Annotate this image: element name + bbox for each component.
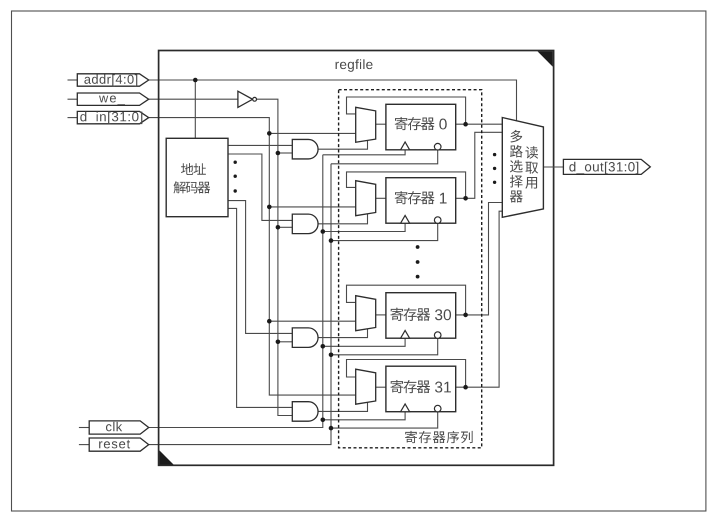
wire reg31 reset (331, 412, 438, 428)
wire feedback reg0 (347, 97, 466, 124)
node d_out[31:0] output flag (563, 159, 650, 174)
node reset input flag (79, 438, 149, 451)
register 0 box (386, 104, 456, 150)
wire reset rail (149, 164, 331, 445)
wire d_in to mux30 (269, 320, 355, 322)
AND gate U2 (reg 0 write en) (292, 139, 318, 159)
wire we to AND3 (278, 341, 292, 343)
wire mux31 to reg31 (376, 386, 386, 388)
register 0 clock pin (401, 142, 410, 150)
wire AND31 select to mux31 (318, 402, 367, 411)
register 30 box (386, 293, 456, 339)
regfile corner fold top-right (537, 51, 552, 66)
wire we to AND1 (278, 152, 292, 154)
wire AND1 select to mux1 (318, 214, 367, 224)
wire reg1 output (456, 132, 503, 198)
wire decoder out30 to AND3 (228, 201, 292, 334)
AND gate U5 (reg 31 write en) (292, 402, 318, 422)
wire decoder out1 to AND2 (228, 154, 292, 220)
wire d_in to mux0 (269, 132, 355, 134)
register 31 reset bubble (434, 405, 441, 412)
wire feedback reg31 (347, 360, 466, 388)
wire addr[4:0] net (149, 80, 517, 121)
wire we_ input (149, 98, 238, 100)
write mux (reg 0) (356, 107, 376, 142)
write mux (reg 31) (356, 369, 376, 404)
wire AND0 select to mux0 (318, 141, 367, 150)
ellipsis mux inputs (493, 153, 496, 184)
read mux (502, 118, 543, 218)
register 30 reset bubble (434, 332, 441, 339)
wire d_in rail (149, 118, 356, 396)
register 31 box (386, 366, 456, 412)
wire reg30 output (456, 203, 503, 315)
wire d_in to mux1 (269, 206, 355, 208)
node we_ input flag (68, 93, 149, 105)
wire mux1 to reg1 (376, 197, 386, 199)
register 0 reset bubble (434, 143, 441, 150)
wire we to AND2 (278, 226, 292, 228)
wire AND30 select to mux30 (318, 329, 367, 338)
AND gate U4 (reg 30 write en) (292, 328, 318, 348)
write mux (reg 30) (356, 296, 376, 331)
wire decoder out31 to AND4 (228, 208, 292, 407)
register 30 clock pin (401, 330, 410, 338)
wire reg0 clock (323, 150, 405, 155)
wire reg31 output (456, 211, 503, 387)
register 31 clock pin (401, 404, 410, 412)
wire reg1 reset (331, 223, 438, 240)
register array label 寄存器序列 (405, 431, 473, 443)
wire reg31 clock (323, 412, 405, 420)
wire d_out (543, 166, 563, 168)
wire reg1 clock (323, 223, 405, 231)
regfile label (336, 62, 339, 69)
inverter U1 (we_) (238, 91, 257, 107)
wire feedback reg1 (347, 172, 466, 198)
ellipsis decoder outputs (234, 161, 237, 193)
wire addr to decoder (194, 80, 196, 138)
wire mux0 to reg0 (376, 123, 386, 125)
wire reg30 reset (331, 338, 438, 354)
wire reg30 clock (323, 338, 405, 346)
node addr[4:0] input flag (68, 74, 149, 87)
node clk input flag (79, 421, 149, 434)
wire decoder out0 to AND1 (228, 144, 292, 146)
register array dashed box (339, 90, 482, 448)
register 1 box (386, 178, 456, 224)
write mux (reg 1) (356, 181, 376, 216)
wire clk rail (149, 155, 323, 428)
AND gate U3 (reg 1 write en) (292, 214, 318, 234)
regfile box (159, 51, 554, 466)
address decoder box (166, 138, 228, 216)
wire mux30 to reg30 (376, 314, 386, 316)
regfile corner fold bottom-left (159, 450, 173, 464)
register 1 clock pin (401, 215, 410, 223)
wire we_ inverted rail (256, 99, 292, 415)
register 1 reset bubble (434, 217, 441, 224)
ellipsis registers (416, 245, 420, 278)
node d_in[31:0] input flag (68, 111, 149, 124)
wire reg0 output (456, 123, 503, 125)
wire feedback reg30 (347, 285, 466, 315)
wire reg0 reset (331, 150, 438, 164)
